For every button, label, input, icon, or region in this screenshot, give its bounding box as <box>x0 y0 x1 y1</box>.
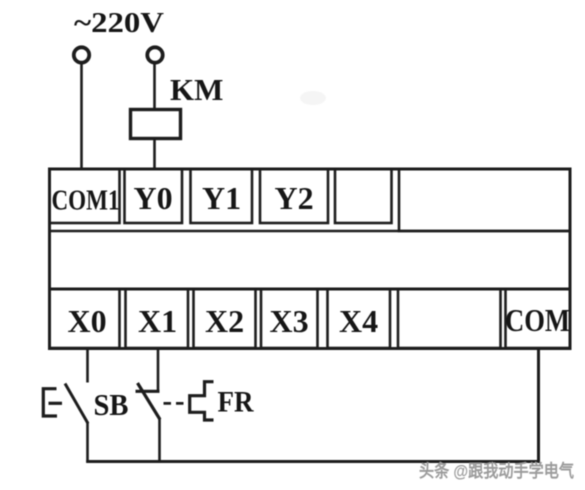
svg-text:头条 @跟我动手学电气: 头条 @跟我动手学电气 <box>419 461 574 481</box>
terminal cell top spare <box>335 169 392 223</box>
terminal N (right supply circle) <box>147 47 162 62</box>
svg-text:SB: SB <box>94 387 129 422</box>
bottom bus wire <box>86 460 540 463</box>
PLC body bottom line <box>50 288 571 291</box>
faint smudge artifact <box>300 91 326 105</box>
wire L to COM1 <box>80 64 83 170</box>
FR contact seat bar <box>136 390 160 393</box>
wire KM coil to Y0 <box>153 139 156 169</box>
PLC outer box <box>50 169 571 349</box>
terminal cell Y1 <box>191 169 253 223</box>
pushbutton SB actuator (E head) <box>43 389 57 416</box>
svg-text:COM1: COM1 <box>52 185 120 217</box>
contactor coil KM <box>131 110 181 139</box>
terminal cell X3 <box>261 289 318 348</box>
svg-text:X3: X3 <box>270 303 309 339</box>
svg-text:Y0: Y0 <box>134 180 173 216</box>
wire X1 to FR upper <box>157 348 160 392</box>
svg-text:~220V: ~220V <box>74 8 164 39</box>
wire bottom bus to COM <box>537 348 540 462</box>
terminal cell Y0 <box>125 169 183 223</box>
terminal cell X2 <box>194 289 256 348</box>
terminal cell Y2 <box>260 169 328 223</box>
svg-text:FR: FR <box>218 387 255 419</box>
svg-text:KM: KM <box>170 72 223 107</box>
terminal L (left supply circle) <box>74 47 89 62</box>
terminal cell X1 <box>126 289 189 348</box>
svg-text:X2: X2 <box>205 303 244 339</box>
terminal cell COM <box>506 289 571 348</box>
terminal cell COM1 <box>50 169 120 223</box>
svg-text:X0: X0 <box>68 303 107 339</box>
wire SB lower to bottom bus <box>86 422 89 463</box>
pushbutton SB blade <box>65 384 88 424</box>
wire N to KM coil <box>153 64 156 110</box>
terminal cell top wide spare <box>399 169 570 231</box>
wire X0 to SB upper <box>86 348 89 383</box>
terminal cell X0 <box>50 289 120 348</box>
svg-text:Y2: Y2 <box>275 180 314 216</box>
svg-text:X1: X1 <box>138 303 177 339</box>
FR linkage dashed line <box>164 402 189 405</box>
svg-text:Y1: Y1 <box>202 180 241 216</box>
terminal cell bottom spare <box>398 289 501 348</box>
PLC body top line <box>50 230 571 233</box>
SB actuator linkage dash <box>49 402 63 405</box>
wire FR lower to bottom bus <box>158 419 161 463</box>
svg-text:X4: X4 <box>339 303 378 339</box>
FR thermal actuator <box>190 382 214 420</box>
FR contact blade <box>138 383 161 420</box>
terminal cell X4 <box>328 289 391 348</box>
svg-text:COM: COM <box>505 302 570 338</box>
